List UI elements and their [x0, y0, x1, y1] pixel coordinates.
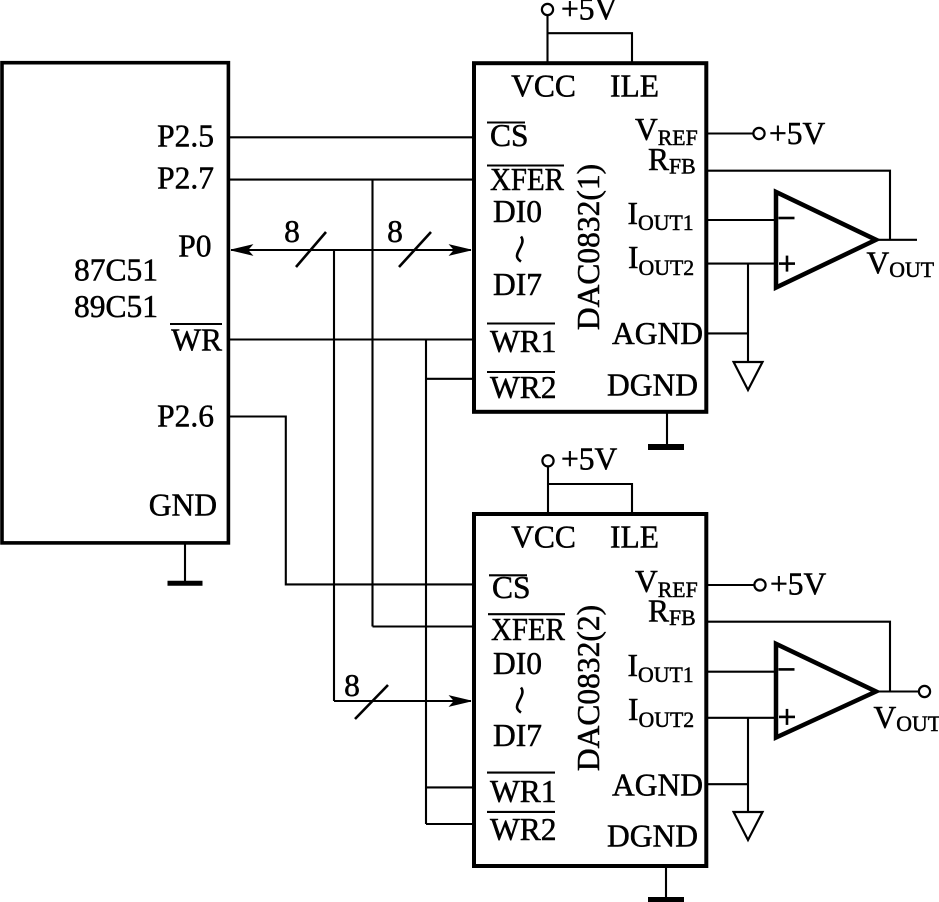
svg-text:ILE: ILE [610, 520, 659, 555]
bus slash 8 (right) [387, 214, 431, 267]
svg-text:DGND: DGND [607, 819, 698, 854]
DAC U2 DAC0832(1) box [474, 63, 706, 412]
wire DGND2 [665, 866, 667, 898]
wire P2.7 to DAC1 XFER [230, 179, 472, 181]
wire P2.6 to DAC2 CS [230, 417, 472, 585]
op-amp U4 [776, 644, 876, 738]
ground (DGND1 bar) [648, 444, 684, 450]
wire op-amp1 output [876, 239, 917, 241]
svg-text:XFER: XFER [491, 612, 565, 647]
MCU pin label P2.6 [157, 399, 214, 434]
node P2.7 branch vertical to DAC2 XFER [371, 180, 373, 627]
svg-text:WR: WR [171, 323, 222, 358]
MCU pin label GND [149, 488, 217, 523]
svg-text:WR1: WR1 [490, 324, 557, 359]
svg-text:P2.7: P2.7 [157, 161, 214, 196]
MCU pin label P0 [178, 229, 211, 264]
DAC U5 DAC0832(2) box [474, 514, 706, 866]
wire to DAC2 WR1 [426, 786, 472, 788]
svg-text:P2.5: P2.5 [157, 119, 214, 154]
wire P0 bus to DAC2 (arrow) [334, 696, 471, 706]
node IOUT2-2 junction vertical to ground [747, 718, 749, 811]
svg-text:DAC0832(2): DAC0832(2) [571, 605, 606, 771]
svg-text:+5V: +5V [561, 0, 618, 27]
MCU ground pin wire [184, 543, 186, 581]
svg-text:ILE: ILE [610, 69, 659, 104]
svg-text:DI0: DI0 [493, 646, 542, 681]
node VOUT1 label [867, 246, 935, 283]
wire to DAC1 WR2 [426, 378, 472, 380]
bus slash 8 (bottom) [344, 668, 388, 719]
node P0 branch vertical to DAC2 bus [333, 250, 335, 701]
node IOUT2 junction vertical to ground [747, 264, 749, 361]
svg-text:GND: GND [149, 488, 217, 523]
node VOUT2 terminal [919, 686, 930, 697]
svg-text:+5V: +5V [561, 442, 618, 477]
svg-text:8: 8 [284, 214, 300, 249]
ground (analog, open triangle DAC1) [734, 362, 763, 390]
svg-text:DAC0832(1): DAC0832(1) [571, 164, 606, 330]
wire RFB1 feedback [708, 171, 890, 240]
svg-text:8: 8 [344, 668, 360, 703]
MCU pin label P2.5 [157, 119, 214, 154]
svg-text:AGND: AGND [612, 316, 703, 351]
svg-text:XFER: XFER [490, 162, 564, 197]
wire AGND2 [708, 783, 748, 785]
wire IOUT2-2 to op-amp plus [708, 717, 776, 719]
wire IOUT1-2 to op-amp minus [708, 671, 776, 673]
ground (DGND2 bar) [648, 897, 684, 902]
wire op-amp2 output [876, 690, 919, 692]
+5V terminal (VREF1) [753, 116, 825, 151]
svg-text:+5V: +5V [769, 116, 826, 151]
svg-text:89C51: 89C51 [74, 289, 158, 324]
+5V supply (DAC1 top) [542, 0, 632, 63]
wire P0 data bus (double arrow) [231, 245, 471, 255]
MCU U1 87C51/89C51 box [2, 63, 228, 543]
svg-text:DGND: DGND [607, 368, 698, 403]
svg-text:WR2: WR2 [490, 812, 557, 847]
svg-text:DI0: DI0 [493, 194, 542, 229]
svg-text:VCC: VCC [511, 520, 576, 555]
MCU pin label WR (active low) [170, 323, 222, 358]
ground (MCU) [168, 581, 203, 586]
wire IOUT2 to op-amp plus [708, 263, 776, 265]
wire to DAC2 WR2 [426, 823, 472, 825]
ground (analog, open triangle DAC2) [734, 812, 763, 840]
node VOUT2 label [874, 700, 939, 736]
+5V supply (DAC2 top) [542, 442, 632, 515]
bus slash 8 (left) [284, 214, 326, 267]
op-amp U3 [776, 192, 876, 288]
svg-text:DI7: DI7 [493, 267, 542, 302]
wire VREF2 to +5V [708, 584, 754, 586]
wire AGND1 [708, 332, 748, 334]
wire XFER2 stub [373, 625, 473, 627]
wire IOUT1 to op-amp minus [708, 219, 776, 221]
wire DGND1 [666, 412, 668, 445]
svg-text:WR2: WR2 [490, 370, 557, 405]
svg-text:87C51: 87C51 [74, 253, 158, 288]
node WR branch vertical [425, 340, 427, 825]
wire VREF1 to +5V [708, 132, 753, 134]
svg-text:+5V: +5V [770, 567, 827, 602]
wire P2.5 to DAC1 CS [230, 136, 472, 138]
svg-text:P0: P0 [178, 229, 211, 264]
+5V terminal (VREF2) [754, 567, 826, 602]
svg-text:AGND: AGND [612, 768, 703, 803]
svg-text:WR1: WR1 [490, 774, 557, 809]
svg-text:P2.6: P2.6 [157, 399, 214, 434]
svg-text:8: 8 [387, 214, 403, 249]
MCU pin label P2.7 [157, 161, 214, 196]
svg-text:DI7: DI7 [493, 718, 542, 753]
wire WR to DAC1 WR1 [230, 338, 472, 340]
wire RFB2 feedback [708, 622, 890, 692]
svg-text:VCC: VCC [511, 69, 576, 104]
